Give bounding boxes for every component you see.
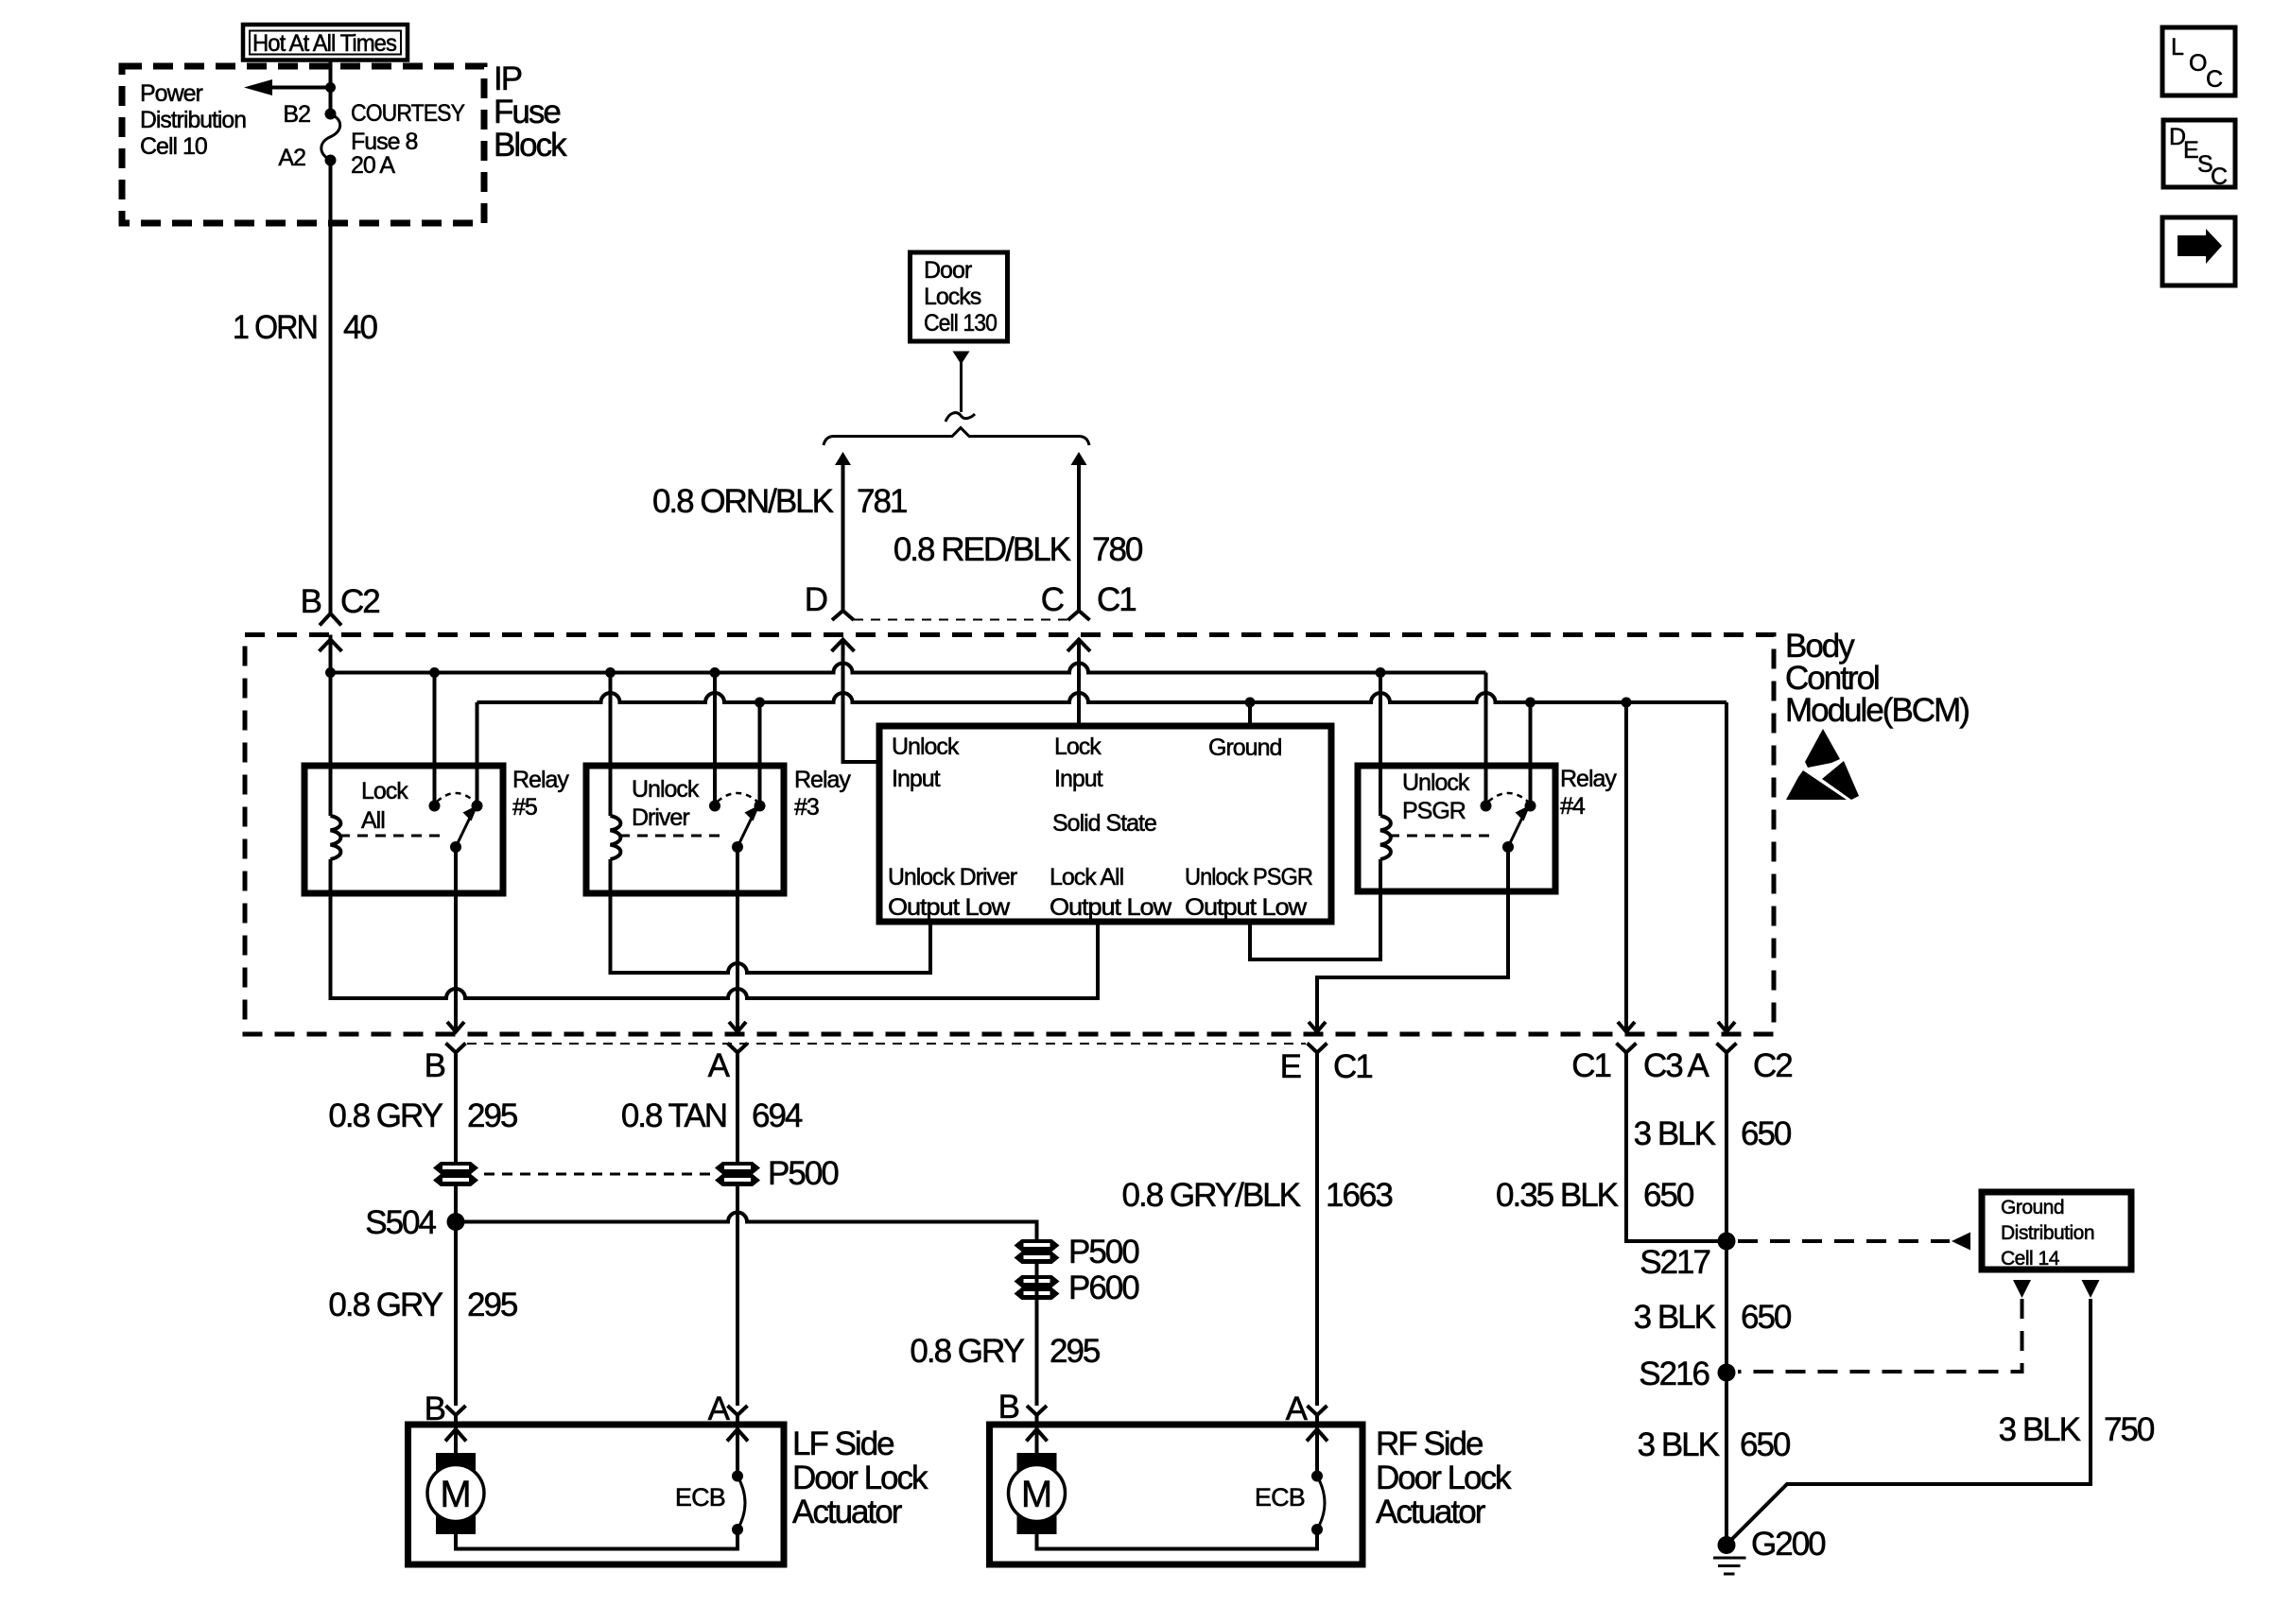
dashed connector pair line P500 <box>484 1173 711 1176</box>
wire: relay 4 common to exit E <box>1317 847 1508 1031</box>
RF ECB switch <box>1255 1471 1325 1536</box>
svg-text:Actuator: Actuator <box>1376 1494 1486 1530</box>
svg-text:0.8 ORN/BLK: 0.8 ORN/BLK <box>652 483 834 520</box>
relay 4 coil <box>1380 816 1391 859</box>
wire 1 ORN 40 from fuse down to BCM <box>329 161 333 614</box>
bus 2 with hops <box>477 693 1727 702</box>
relay 5 right contact wire <box>476 702 479 806</box>
connector Y at C entry <box>1068 611 1090 620</box>
relay 4 box <box>1358 766 1555 891</box>
wire: lock input from C <box>1077 640 1081 727</box>
svg-text:B: B <box>998 1389 1019 1425</box>
svg-text:A: A <box>708 1047 731 1084</box>
wire C2 down to G200 <box>1725 1053 1728 1546</box>
svg-text:1663: 1663 <box>1326 1177 1392 1214</box>
wire from S504 to RF branch with hop over A <box>456 1213 1037 1240</box>
svg-text:Unlock PSGR: Unlock PSGR <box>1185 864 1312 890</box>
svg-text:B: B <box>425 1047 445 1084</box>
relay 5 switch arm <box>456 805 478 848</box>
wire: bus2 down to exit C1 <box>1624 702 1628 1031</box>
wire 3 BLK 750 from right reference arrow to G200 <box>1730 1299 2091 1541</box>
wire: unlock input from D <box>843 640 880 763</box>
exit Y connector at E <box>1308 1044 1327 1053</box>
inline connector P600 on RF branch <box>1015 1270 1140 1306</box>
svg-text:Output Low: Output Low <box>888 894 1011 921</box>
LF internal wire motor to switch <box>456 1529 737 1549</box>
inline connector on wire A <box>715 1162 760 1186</box>
svg-text:Fuse 8: Fuse 8 <box>351 129 418 155</box>
arrow to Power Distribution <box>244 79 336 95</box>
LF actuator label <box>792 1425 928 1530</box>
svg-text:3 BLK: 3 BLK <box>1999 1411 2081 1448</box>
wire label 0.35 BLK 650 <box>1496 1177 1694 1214</box>
svg-text:0.8 GRY/BLK: 0.8 GRY/BLK <box>1122 1177 1301 1214</box>
bus1 junction dots <box>325 667 336 678</box>
svg-text:Power: Power <box>140 80 203 107</box>
svg-text:Hot At All Times: Hot At All Times <box>252 30 396 57</box>
svg-text:S216: S216 <box>1639 1356 1709 1392</box>
svg-text:3 BLK: 3 BLK <box>1634 1299 1716 1336</box>
IP Fuse Block dashed box <box>122 66 484 223</box>
svg-text:295: 295 <box>467 1097 517 1134</box>
svg-text:Actuator: Actuator <box>792 1494 903 1530</box>
svg-text:3 BLK: 3 BLK <box>1638 1426 1720 1463</box>
ESD sensitivity symbol <box>1786 729 1859 800</box>
wire: ground to bus2 <box>1248 702 1252 726</box>
svg-text:#4: #4 <box>1560 793 1586 820</box>
svg-text:Ground: Ground <box>2001 1197 2064 1218</box>
RF actuator label <box>1376 1425 1512 1530</box>
svg-text:D: D <box>805 581 827 618</box>
wire label 0.8 TAN 694 <box>621 1097 803 1134</box>
exit arrow at A <box>729 1022 746 1032</box>
wire label 1 ORN 40 <box>233 309 377 346</box>
bus 1 (power feed) with hops over D and C <box>331 664 1486 673</box>
svg-text:PSGR: PSGR <box>1402 798 1466 824</box>
Body Control Module dashed box <box>245 635 1774 1035</box>
Door Locks Cell 130 box <box>911 252 1008 341</box>
exit arrow at C1 <box>1618 1022 1635 1032</box>
svg-text:Door Lock: Door Lock <box>1376 1460 1512 1496</box>
splice S504 <box>447 1213 465 1231</box>
svg-text:1 ORN: 1 ORN <box>233 309 317 346</box>
svg-text:C1: C1 <box>1571 1047 1610 1084</box>
svg-text:E: E <box>1280 1048 1301 1085</box>
wire 0.8 ORN/BLK 781 (circuit D) <box>835 452 851 612</box>
actuator entry wires <box>454 1415 458 1456</box>
svg-text:650: 650 <box>1741 1299 1792 1336</box>
relay 3 coil <box>611 816 621 859</box>
wire label 0.8 ORN/BLK 781 <box>652 483 907 520</box>
svg-text:295: 295 <box>1050 1333 1100 1370</box>
wire stub below Door Locks arrow <box>960 362 963 412</box>
RF Side Door Lock Actuator box <box>990 1425 1363 1564</box>
exit pin labels <box>425 1047 1793 1085</box>
svg-text:20 A: 20 A <box>351 152 395 179</box>
svg-text:Input: Input <box>1054 766 1103 792</box>
Hot At All Times box <box>243 25 408 60</box>
wire: unlock driver output low to relay 3 coil <box>611 859 931 973</box>
svg-text:C2: C2 <box>340 583 379 620</box>
svg-text:Door: Door <box>924 257 972 284</box>
svg-text:C3 A: C3 A <box>1643 1047 1710 1084</box>
svg-text:Relay: Relay <box>512 767 569 793</box>
wire: lock all output low to relay 5 coil <box>331 859 1099 998</box>
relay 4 coil feed from bus1 <box>1379 673 1382 817</box>
COURTESY Fuse 8 element (S-curve) <box>321 114 340 161</box>
wire: B/C2 feed down to relay 5 coil <box>329 635 333 817</box>
wire label 0.8 GRY/BLK 1663 <box>1122 1177 1393 1214</box>
relay 4 right contact wire <box>1529 702 1533 806</box>
relay 5 left contact wire <box>433 673 437 806</box>
fuse A2 terminal <box>325 155 337 166</box>
svg-text:ECB: ECB <box>1255 1483 1305 1512</box>
entry arrow into BCM at C <box>1067 640 1090 652</box>
relay 4 name <box>1560 766 1617 820</box>
bus2 junction dots <box>755 698 765 708</box>
svg-text:Solid State: Solid State <box>1052 810 1156 837</box>
relay 4 switch arm <box>1508 805 1531 848</box>
relay 5 coil-switch link dashed <box>339 835 444 838</box>
entry arrow into BCM at D <box>832 640 855 652</box>
solid state box <box>879 726 1331 922</box>
svg-text:Output Low: Output Low <box>1185 894 1308 921</box>
svg-text:P500: P500 <box>1068 1234 1139 1270</box>
svg-text:#5: #5 <box>512 794 537 821</box>
pin labels D, C, C1 <box>805 581 1136 618</box>
Power Distribution Cell 10 label <box>140 80 246 160</box>
splice S216 <box>1718 1364 1736 1382</box>
wire RF branch down to RF actuator <box>1035 1264 1039 1406</box>
relay 3 contact dashed arc <box>718 793 758 802</box>
relay 4 coil-switch link dashed <box>1389 835 1495 838</box>
dashed reference from S217 to Ground Distribution <box>1738 1233 1970 1251</box>
DESC icon box <box>2163 120 2235 190</box>
svg-text:C1: C1 <box>1333 1048 1372 1085</box>
exit arrow at B <box>447 1022 464 1032</box>
svg-text:Lock: Lock <box>361 778 408 804</box>
LF motor <box>427 1453 484 1534</box>
svg-text:Driver: Driver <box>632 804 689 831</box>
svg-text:Unlock Driver: Unlock Driver <box>888 864 1017 890</box>
svg-text:ECB: ECB <box>675 1483 725 1512</box>
actuator pin labels <box>425 1389 1309 1427</box>
svg-text:Fuse: Fuse <box>494 94 560 130</box>
svg-text:S217: S217 <box>1640 1244 1709 1281</box>
svg-text:M: M <box>1021 1474 1052 1515</box>
relay 3 label Unlock Driver <box>632 776 700 831</box>
wire B down from BCM to LF actuator <box>454 1053 458 1407</box>
actuator entry arrows <box>445 1429 466 1442</box>
relay 3 coil-switch link dashed <box>619 835 724 838</box>
exit arrow at C2 <box>1718 1022 1735 1032</box>
svg-text:Lock: Lock <box>1054 734 1102 760</box>
IP Fuse Block label <box>494 60 567 164</box>
inline connector on wire B <box>433 1162 478 1186</box>
Body Control Module label <box>1785 628 1969 729</box>
svg-text:COURTESY: COURTESY <box>351 100 465 127</box>
svg-text:B: B <box>301 583 321 620</box>
reference arrow down-right below box <box>2082 1280 2100 1298</box>
wire A down from BCM to LF actuator <box>736 1053 739 1407</box>
splice S217 <box>1718 1233 1736 1251</box>
svg-text:All: All <box>361 807 385 834</box>
exit arrow at E <box>1309 1022 1326 1032</box>
svg-text:O: O <box>2189 50 2207 77</box>
wire label 0.8 GRY 295 (lower left) <box>328 1287 517 1323</box>
relay 3 switch arm <box>737 805 760 848</box>
relay 4 left contact wire from bus1 corner <box>1484 673 1488 806</box>
wire label 3 BLK 650 (middle) <box>1634 1299 1792 1336</box>
svg-text:694: 694 <box>752 1097 803 1134</box>
svg-text:0.8 RED/BLK: 0.8 RED/BLK <box>894 531 1071 568</box>
svg-text:Relay: Relay <box>1560 766 1617 792</box>
wire label 0.8 GRY 295 (upper) <box>328 1097 517 1134</box>
svg-text:Ground: Ground <box>1208 734 1281 761</box>
svg-text:B2: B2 <box>283 101 310 128</box>
relay 4 contact dashed arc <box>1488 793 1528 802</box>
relay 5 box <box>304 766 503 893</box>
relay 3 contacts <box>709 801 720 812</box>
svg-text:650: 650 <box>1740 1426 1791 1463</box>
brace over wires 781/780 <box>824 428 1089 446</box>
svg-text:0.8 GRY: 0.8 GRY <box>328 1097 442 1134</box>
svg-text:A2: A2 <box>278 145 305 171</box>
svg-text:C2: C2 <box>1753 1047 1792 1084</box>
relay 3 coil feed from bus1 <box>609 673 613 817</box>
svg-text:M: M <box>440 1474 471 1515</box>
svg-text:0.35 BLK: 0.35 BLK <box>1496 1177 1619 1214</box>
connector Y at B/C2 entry <box>320 613 341 626</box>
wire: relay 3 common to exit A <box>736 847 739 1031</box>
svg-text:#3: #3 <box>794 794 819 821</box>
relay 5 contact dashed arc <box>437 793 475 802</box>
wire E down to RF actuator <box>1315 1053 1319 1407</box>
wire C1 down to S217 <box>1626 1053 1726 1242</box>
svg-text:Unlock: Unlock <box>1402 769 1470 796</box>
Ground Distribution Cell 14 box <box>1982 1192 2131 1270</box>
dashed wire from S216 to left reference arrow <box>1738 1299 2022 1372</box>
svg-text:Distribution: Distribution <box>2001 1222 2094 1244</box>
svg-text:0.8 GRY: 0.8 GRY <box>328 1287 442 1323</box>
wire label 3 BLK 650 (top) <box>1634 1115 1792 1152</box>
svg-text:0.8 GRY: 0.8 GRY <box>910 1333 1024 1370</box>
svg-text:40: 40 <box>343 309 377 346</box>
exit Y connector at B <box>446 1044 466 1053</box>
break squiggle <box>946 413 975 422</box>
LOC icon box <box>2162 27 2235 95</box>
wire 0.8 RED/BLK 780 (circuit C) <box>1071 452 1087 612</box>
svg-text:3 BLK: 3 BLK <box>1634 1115 1716 1152</box>
svg-text:Locks: Locks <box>924 284 981 310</box>
relay 5 coil <box>331 816 341 859</box>
svg-text:780: 780 <box>1092 531 1143 568</box>
svg-text:L: L <box>2171 34 2184 60</box>
relay 3 right contact wire <box>758 702 762 806</box>
thin dashed connector line B to E <box>467 1043 1306 1045</box>
actuator Y connectors <box>446 1406 466 1415</box>
exit Y connector at C1 <box>1617 1044 1637 1053</box>
wire label 0.8 RED/BLK 780 <box>894 531 1143 568</box>
svg-text:Cell 10: Cell 10 <box>140 133 207 160</box>
svg-text:Input: Input <box>892 766 941 792</box>
svg-text:S504: S504 <box>365 1204 436 1241</box>
relay 4 contacts <box>1481 801 1492 812</box>
connector Y at D entry <box>832 611 854 620</box>
arrow down from Door Locks box <box>953 352 970 365</box>
svg-text:Unlock: Unlock <box>892 734 960 760</box>
relay 3 left contact wire <box>713 673 717 806</box>
fuse name label <box>351 100 465 179</box>
wire: unlock PSGR output low to relay 4 coil <box>1250 859 1380 959</box>
svg-text:0.8 TAN: 0.8 TAN <box>621 1097 726 1134</box>
relay 3 box <box>586 766 784 893</box>
svg-text:781: 781 <box>857 483 907 520</box>
svg-text:Cell 130: Cell 130 <box>924 310 997 337</box>
ground G200 <box>1713 1526 1826 1574</box>
svg-text:C1: C1 <box>1097 581 1136 618</box>
relay 5 contacts <box>429 801 441 812</box>
svg-text:650: 650 <box>1643 1177 1694 1214</box>
RF internal wire motor to switch <box>1037 1529 1318 1549</box>
svg-text:RF Side: RF Side <box>1376 1425 1483 1462</box>
fuse B2 terminal <box>325 109 337 120</box>
thin dashed connector line between D and C <box>854 619 1067 621</box>
wire label 0.8 GRY 295 (RF branch) <box>910 1333 1100 1370</box>
svg-text:Module(BCM): Module(BCM) <box>1785 692 1969 729</box>
wire label 3 BLK 750 <box>1999 1411 2155 1448</box>
svg-text:750: 750 <box>2104 1411 2155 1448</box>
svg-text:P500: P500 <box>768 1155 839 1192</box>
solid state labels <box>892 734 960 792</box>
svg-text:Unlock: Unlock <box>632 776 700 803</box>
reference arrow down-left below box <box>2013 1280 2031 1298</box>
pin labels B C2 at BCM entry <box>301 583 380 620</box>
svg-text:Relay: Relay <box>794 767 851 793</box>
svg-text:LF Side: LF Side <box>792 1425 894 1462</box>
LF Side Door Lock Actuator box <box>408 1425 785 1564</box>
arrow icon box <box>2162 217 2235 285</box>
svg-text:G200: G200 <box>1751 1526 1826 1563</box>
svg-text:295: 295 <box>467 1287 517 1323</box>
relay 3 name <box>794 767 851 821</box>
svg-text:Block: Block <box>494 127 567 164</box>
svg-text:Cell 14: Cell 14 <box>2001 1248 2060 1270</box>
svg-text:IP: IP <box>494 60 522 97</box>
relay 5 label Lock All <box>361 778 408 834</box>
svg-text:Lock All: Lock All <box>1050 864 1123 890</box>
relay 5 name <box>512 767 569 821</box>
relay 4 label Unlock PSGR <box>1402 769 1470 824</box>
inline connector P500 on RF branch <box>1015 1234 1140 1270</box>
svg-text:E: E <box>2183 137 2198 164</box>
exit Y connector at A <box>728 1044 748 1053</box>
svg-text:P600: P600 <box>1068 1270 1139 1306</box>
exit Y connector at C2 <box>1717 1044 1737 1053</box>
svg-text:650: 650 <box>1741 1115 1792 1152</box>
svg-text:Door Lock: Door Lock <box>792 1460 928 1496</box>
svg-text:C: C <box>1041 581 1064 618</box>
wire from Hot At All Times down to fuse <box>329 59 333 114</box>
wire: relay 5 common to exit B <box>454 847 458 1031</box>
entry arrow into BCM at B <box>320 640 342 652</box>
wire label 3 BLK 650 (bottom) <box>1638 1426 1791 1463</box>
svg-text:C: C <box>2206 66 2223 93</box>
svg-text:Output Low: Output Low <box>1050 894 1172 921</box>
wire: bus2 corner down to exit C2 <box>1725 702 1728 1031</box>
svg-text:C: C <box>2211 164 2228 190</box>
RF motor <box>1009 1453 1066 1534</box>
LF ECB switch <box>675 1471 745 1536</box>
svg-text:Distribution: Distribution <box>140 107 246 133</box>
